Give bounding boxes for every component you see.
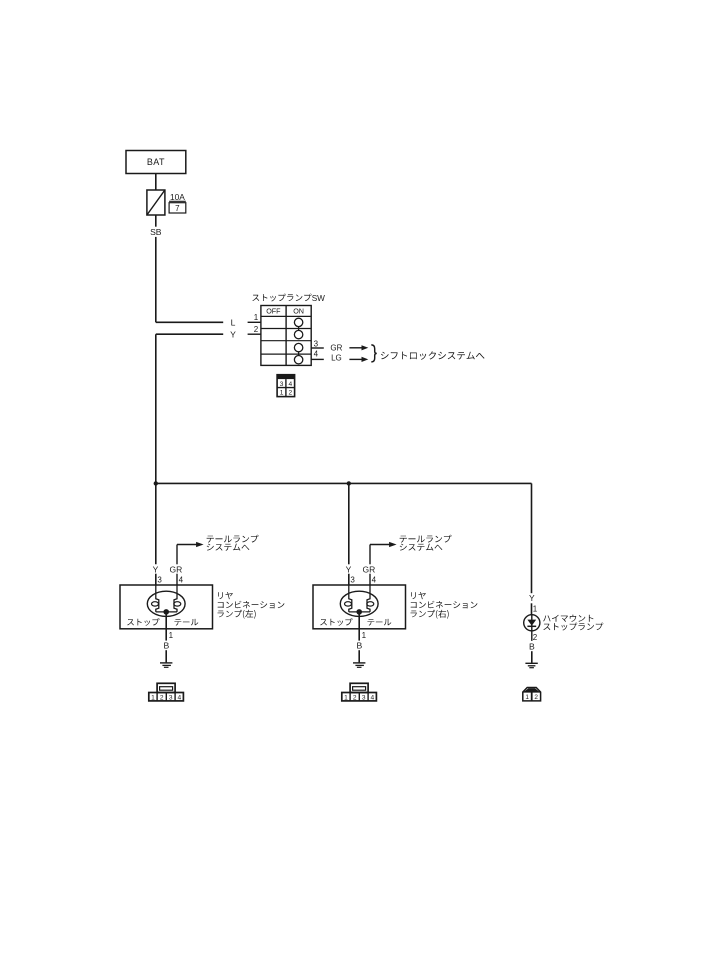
- svg-text:4: 4: [288, 381, 292, 388]
- lamp name (right): [411, 592, 478, 619]
- svg-text:1: 1: [533, 605, 538, 614]
- lamp connector (left): [149, 683, 184, 701]
- stop lamp switch SW table: [261, 306, 311, 366]
- filament label stop (left): [127, 618, 159, 626]
- wire label Y (right): [346, 564, 352, 585]
- wire fuse to switch, label SB: [150, 215, 162, 322]
- switch contact link 3-4: [298, 352, 300, 356]
- high mount LED lamp: [524, 615, 540, 641]
- svg-text:LG: LG: [331, 354, 342, 363]
- svg-text:Y: Y: [529, 593, 535, 603]
- switch contact 1: [294, 318, 302, 326]
- svg-text:3: 3: [280, 381, 284, 388]
- svg-text:3: 3: [314, 340, 319, 349]
- svg-text:1: 1: [280, 390, 284, 397]
- brace to shift lock system: [371, 345, 377, 362]
- ground (right): [353, 663, 365, 667]
- high mount connector (1 2): [523, 688, 541, 701]
- battery BAT: [126, 151, 186, 174]
- wire to right lamp: [348, 483, 350, 564]
- wire Y main vertical: [155, 334, 157, 564]
- junction left: [154, 481, 158, 485]
- svg-text:3: 3: [362, 694, 366, 701]
- svg-text:3: 3: [157, 575, 162, 584]
- switch pin 4: [311, 350, 324, 360]
- svg-text:2: 2: [160, 694, 164, 701]
- lamp connector (right): [342, 683, 377, 701]
- filament label tail (left): [175, 619, 199, 626]
- svg-text:1: 1: [254, 313, 259, 322]
- high mount wire label Y: [529, 593, 535, 615]
- ground (left): [160, 663, 172, 667]
- switch pin 2: [248, 325, 261, 334]
- wire GR tail lamp feed (left): [170, 542, 204, 585]
- svg-text:Y: Y: [230, 329, 236, 339]
- switch pin 3: [311, 340, 324, 349]
- svg-text:1: 1: [344, 694, 348, 701]
- switch contact link 1-2: [298, 327, 300, 331]
- svg-text:L: L: [231, 317, 236, 327]
- svg-text:OFF: OFF: [266, 307, 281, 316]
- svg-text:Y: Y: [346, 564, 352, 574]
- wire LG to shift lock: [331, 354, 368, 363]
- svg-text:1: 1: [169, 631, 174, 640]
- svg-text:SB: SB: [150, 227, 162, 237]
- svg-text:2: 2: [288, 390, 292, 397]
- fuse value label 10A: [169, 192, 186, 202]
- svg-text:2: 2: [533, 633, 538, 642]
- bulb (right): [340, 585, 378, 616]
- rear combination lamp box (left): [120, 585, 213, 629]
- switch connector (3 4 / 1 2): [277, 375, 295, 397]
- high mount pin 2 wire, label B: [529, 642, 535, 663]
- bus wire to lamps: [156, 482, 532, 484]
- svg-text:3: 3: [350, 575, 355, 584]
- svg-text:2: 2: [254, 325, 259, 334]
- svg-text:4: 4: [314, 350, 319, 359]
- junction right: [347, 481, 351, 485]
- high mount lamp name: [543, 615, 603, 631]
- wire label Y (left): [153, 564, 159, 585]
- switch contact 4: [294, 356, 302, 364]
- stop lamp switch label: [252, 294, 325, 303]
- wire BAT to fuse: [155, 174, 157, 191]
- lamp pin 1 wire (right): [357, 612, 367, 663]
- label: to tail lamp system (right): [400, 535, 452, 551]
- svg-text:GR: GR: [363, 564, 376, 574]
- svg-text:BAT: BAT: [147, 157, 165, 167]
- svg-text:Y: Y: [153, 564, 159, 574]
- bulb (left): [147, 585, 185, 616]
- label: to tail lamp system (left): [207, 535, 259, 551]
- svg-text:4: 4: [370, 694, 374, 701]
- svg-text:2: 2: [534, 694, 538, 701]
- wire Y from switch pin 2: [156, 329, 236, 339]
- wire GR to shift lock: [330, 344, 368, 353]
- svg-text:1: 1: [151, 694, 155, 701]
- filament label stop (right): [320, 618, 352, 626]
- svg-text:B: B: [164, 641, 170, 651]
- rear combination lamp box (right): [313, 585, 406, 629]
- lamp name (left): [218, 592, 285, 619]
- lamp pin 1 wire (left): [164, 612, 174, 663]
- svg-text:GR: GR: [170, 564, 183, 574]
- svg-text:ON: ON: [293, 307, 304, 316]
- svg-text:4: 4: [177, 694, 181, 701]
- svg-text:SW: SW: [312, 294, 325, 303]
- svg-text:4: 4: [372, 575, 377, 584]
- svg-text:1: 1: [525, 694, 529, 701]
- switch pin 1: [248, 313, 261, 322]
- svg-text:B: B: [529, 642, 535, 652]
- wire L to switch pin 1: [156, 317, 236, 327]
- switch contact 2: [294, 330, 302, 338]
- switch contact 3: [294, 343, 302, 351]
- fuse number box 7: [169, 203, 186, 213]
- svg-text:B: B: [357, 641, 363, 651]
- svg-text:3: 3: [169, 694, 173, 701]
- svg-text:7: 7: [175, 204, 180, 213]
- svg-text:4: 4: [179, 575, 184, 584]
- svg-text:2: 2: [353, 694, 357, 701]
- wire GR tail lamp feed (right): [363, 542, 397, 585]
- label: to shift lock system: [381, 351, 485, 359]
- high mount ground: [525, 663, 537, 667]
- svg-text:1: 1: [362, 631, 367, 640]
- wire to high mount lamp: [531, 483, 533, 593]
- filament label tail (right): [368, 619, 392, 626]
- svg-text:GR: GR: [330, 344, 342, 353]
- fuse 10A No.7: [147, 190, 165, 215]
